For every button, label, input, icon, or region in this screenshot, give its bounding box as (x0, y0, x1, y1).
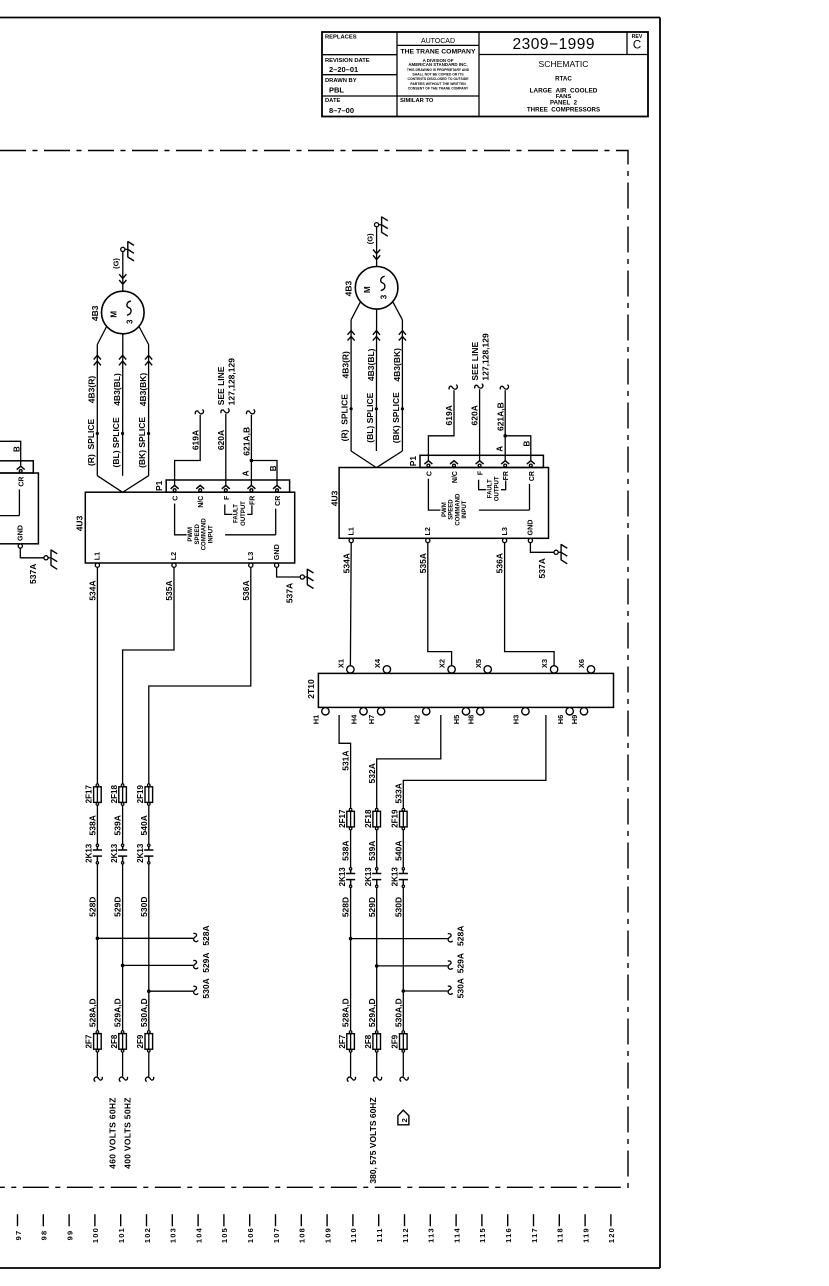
svg-text:535A: 535A (418, 553, 428, 573)
svg-text:4B3(R): 4B3(R) (87, 376, 97, 404)
svg-text:4U3: 4U3 (75, 515, 85, 531)
svg-text:H8: H8 (466, 715, 475, 725)
svg-text:(G): (G) (365, 233, 374, 244)
svg-text:X3: X3 (540, 659, 549, 668)
svg-text:THIS DRAWING IS PROPRIETARY AN: THIS DRAWING IS PROPRIETARY AND (407, 68, 470, 72)
svg-text:2F7: 2F7 (338, 1034, 347, 1048)
svg-text:C: C (633, 40, 641, 52)
svg-text:2F9: 2F9 (136, 1034, 145, 1048)
svg-text:C: C (173, 496, 180, 501)
svg-text:SPEED: SPEED (449, 499, 455, 520)
svg-text:REPLACES: REPLACES (325, 35, 357, 41)
svg-text:528A,D: 528A,D (341, 998, 351, 1027)
svg-text:380, 575 VOLTS 60HZ: 380, 575 VOLTS 60HZ (368, 1097, 378, 1183)
svg-text:(BK) SPLICE: (BK) SPLICE (391, 392, 401, 443)
svg-text:4U3: 4U3 (329, 490, 339, 506)
svg-text:4B3(BL): 4B3(BL) (366, 348, 376, 381)
svg-text:H4: H4 (350, 714, 359, 724)
svg-text:619A: 619A (190, 430, 200, 450)
svg-text:H2: H2 (412, 715, 421, 725)
svg-text:2F9: 2F9 (391, 1034, 400, 1048)
svg-text:103: 103 (169, 1227, 178, 1243)
svg-text:PWM: PWM (188, 527, 194, 542)
svg-text:115: 115 (478, 1227, 487, 1243)
svg-text:538A: 538A (341, 841, 351, 861)
svg-text:98: 98 (40, 1230, 49, 1241)
svg-text:2K13: 2K13 (338, 867, 347, 887)
svg-text:102: 102 (143, 1227, 152, 1243)
svg-text:400 VOLTS 50HZ: 400 VOLTS 50HZ (123, 1097, 133, 1169)
svg-text:AMERICAN STANDARD INC.: AMERICAN STANDARD INC. (408, 62, 467, 67)
svg-text:P1: P1 (408, 456, 418, 467)
svg-text:2F8: 2F8 (110, 1034, 119, 1048)
svg-text:2F18: 2F18 (110, 785, 119, 804)
svg-text:L1: L1 (93, 552, 102, 560)
svg-text:111: 111 (375, 1227, 384, 1242)
svg-text:101: 101 (117, 1227, 126, 1243)
svg-text:538A: 538A (88, 815, 98, 835)
svg-text:127,128,129: 127,128,129 (481, 333, 491, 381)
svg-text:4B3(BK): 4B3(BK) (392, 348, 402, 382)
svg-text:SHALL NOT BE COPIED OR ITS: SHALL NOT BE COPIED OR ITS (412, 73, 464, 77)
svg-text:97: 97 (14, 1230, 23, 1241)
svg-text:107: 107 (272, 1227, 281, 1243)
svg-text:PBL: PBL (329, 86, 344, 95)
svg-text:B: B (269, 465, 278, 471)
svg-text:530D: 530D (393, 897, 403, 917)
svg-text:2–20–01: 2–20–01 (329, 65, 358, 74)
svg-text:3: 3 (379, 294, 388, 299)
svg-text:CR: CR (275, 496, 282, 506)
svg-text:532A: 532A (367, 763, 377, 783)
svg-text:114: 114 (452, 1227, 461, 1243)
svg-text:2F8: 2F8 (364, 1034, 373, 1048)
svg-text:2K13: 2K13 (391, 867, 400, 887)
svg-text:2F7: 2F7 (85, 1034, 94, 1048)
svg-text:529D: 529D (113, 897, 123, 917)
svg-text:2K13: 2K13 (136, 843, 145, 863)
svg-text:108: 108 (298, 1227, 307, 1243)
svg-text:8–7–00: 8–7–00 (329, 106, 354, 115)
svg-text:P1: P1 (154, 480, 164, 491)
svg-text:4B3(BK): 4B3(BK) (138, 373, 148, 407)
svg-text:528D: 528D (88, 897, 98, 917)
svg-text:530A: 530A (456, 978, 466, 998)
svg-text:L2: L2 (423, 527, 432, 535)
svg-text:535A: 535A (164, 580, 174, 600)
svg-text:537A: 537A (28, 564, 38, 584)
svg-text:528A,D: 528A,D (88, 998, 98, 1027)
svg-text:H7: H7 (367, 715, 376, 725)
svg-text:529A,D: 529A,D (113, 998, 123, 1027)
svg-text:F: F (224, 495, 231, 500)
svg-text:539A: 539A (113, 815, 123, 835)
svg-text:C: C (426, 471, 433, 476)
svg-text:M: M (109, 311, 118, 318)
svg-text:537A: 537A (537, 558, 547, 578)
svg-text:SEE LINE: SEE LINE (216, 366, 226, 405)
svg-text:RTAC: RTAC (555, 75, 572, 82)
svg-text:105: 105 (220, 1227, 229, 1243)
svg-text:530A,D: 530A,D (139, 998, 149, 1027)
svg-text:X5: X5 (474, 659, 483, 668)
svg-text:X6: X6 (577, 659, 586, 668)
svg-text:540A: 540A (139, 815, 149, 835)
svg-text:536A: 536A (495, 553, 505, 573)
svg-text:2T10: 2T10 (306, 679, 316, 699)
svg-text:540A: 540A (393, 841, 403, 861)
svg-text:GND: GND (272, 544, 281, 560)
svg-text:(BK) SPLICE: (BK) SPLICE (137, 417, 147, 468)
svg-text:FAULT: FAULT (488, 479, 494, 498)
svg-text:620A: 620A (470, 405, 480, 425)
svg-text:104: 104 (194, 1227, 203, 1243)
svg-text:100: 100 (91, 1227, 100, 1243)
svg-text:2F17: 2F17 (85, 785, 94, 804)
svg-text:L2: L2 (169, 552, 178, 560)
svg-text:SCHEMATIC: SCHEMATIC (539, 59, 589, 69)
svg-text:530D: 530D (139, 897, 149, 917)
svg-text:127,128,129: 127,128,129 (227, 358, 237, 406)
svg-text:2K13: 2K13 (85, 843, 94, 863)
svg-text:N/C: N/C (198, 496, 205, 508)
svg-text:PARTIES WITHOUT THE WRITTEN: PARTIES WITHOUT THE WRITTEN (410, 82, 466, 86)
svg-text:B: B (13, 446, 22, 452)
svg-text:620A: 620A (216, 430, 226, 450)
svg-text:2: 2 (400, 1118, 409, 1122)
svg-text:2309−1999: 2309−1999 (513, 36, 596, 53)
svg-text:L3: L3 (500, 527, 509, 535)
svg-text:OUTPUT: OUTPUT (495, 476, 501, 501)
svg-text:530A: 530A (201, 978, 211, 998)
svg-text:460 VOLTS 60HZ: 460 VOLTS 60HZ (108, 1097, 118, 1169)
svg-text:112: 112 (401, 1227, 410, 1243)
svg-text:(G): (G) (112, 258, 121, 269)
svg-text:SEE LINE: SEE LINE (470, 342, 480, 381)
svg-text:2K13: 2K13 (110, 843, 119, 863)
svg-text:GND: GND (526, 520, 535, 536)
svg-text:536A: 536A (241, 580, 251, 600)
svg-text:534A: 534A (88, 580, 98, 600)
svg-text:L1: L1 (346, 527, 355, 535)
svg-text:FR: FR (503, 471, 510, 480)
svg-text:534A: 534A (341, 553, 351, 573)
svg-text:533A: 533A (393, 783, 403, 803)
svg-text:(R) SPLICE: (R) SPLICE (86, 418, 96, 466)
svg-text:A: A (242, 470, 251, 476)
svg-text:(R) SPLICE: (R) SPLICE (340, 394, 350, 442)
svg-text:621A,B: 621A,B (495, 402, 505, 431)
svg-text:INPUT: INPUT (462, 500, 468, 518)
svg-text:2F19: 2F19 (391, 809, 400, 828)
svg-text:106: 106 (246, 1227, 255, 1243)
svg-text:REVISION DATE: REVISION DATE (325, 58, 370, 64)
svg-text:THE TRANE COMPANY: THE TRANE COMPANY (400, 49, 475, 56)
svg-text:(BL) SPLICE: (BL) SPLICE (365, 392, 375, 442)
svg-text:COMMAND: COMMAND (455, 493, 461, 526)
svg-text:116: 116 (504, 1227, 513, 1243)
svg-text:SIMILAR TO: SIMILAR TO (400, 98, 434, 104)
svg-text:CONSENT OF THE TRANE COMPANY: CONSENT OF THE TRANE COMPANY (408, 86, 469, 90)
svg-text:X1: X1 (337, 659, 346, 668)
svg-text:531A: 531A (341, 750, 351, 770)
svg-text:INPUT: INPUT (208, 525, 214, 543)
svg-text:621A,B: 621A,B (242, 427, 252, 456)
svg-text:F: F (478, 470, 485, 475)
svg-text:H1: H1 (312, 715, 321, 725)
svg-text:118: 118 (556, 1227, 565, 1243)
svg-text:528D: 528D (341, 897, 351, 917)
svg-text:113: 113 (427, 1227, 436, 1243)
svg-text:539A: 539A (367, 841, 377, 861)
svg-text:COMMAND: COMMAND (202, 518, 208, 551)
svg-text:CR: CR (19, 477, 26, 487)
svg-text:THREE COMPRESSORS: THREE COMPRESSORS (527, 106, 600, 113)
svg-text:4B3: 4B3 (344, 281, 354, 297)
svg-text:FR: FR (249, 496, 256, 505)
svg-text:N/C: N/C (452, 471, 459, 483)
svg-text:M: M (363, 286, 372, 293)
svg-text:PWM: PWM (442, 502, 448, 517)
svg-text:H3: H3 (512, 715, 521, 725)
svg-text:2K13: 2K13 (364, 867, 373, 887)
svg-text:CONTENTS DISCLOSED TO OUTSIDE: CONTENTS DISCLOSED TO OUTSIDE (408, 77, 470, 81)
svg-text:AUTOCAD: AUTOCAD (421, 38, 455, 45)
svg-text:529A: 529A (201, 952, 211, 972)
svg-text:529D: 529D (367, 897, 377, 917)
svg-text:120: 120 (607, 1227, 616, 1243)
svg-text:H6: H6 (556, 715, 565, 725)
svg-text:4B3: 4B3 (90, 305, 100, 321)
svg-text:99: 99 (65, 1230, 74, 1241)
svg-text:FAULT: FAULT (234, 504, 240, 523)
svg-text:H9: H9 (570, 715, 579, 725)
svg-text:4B3(R): 4B3(R) (341, 351, 351, 379)
svg-text:528A: 528A (201, 925, 211, 945)
svg-text:4B3(BL): 4B3(BL) (112, 373, 122, 406)
svg-text:DATE: DATE (325, 98, 340, 104)
svg-text:OUTPUT: OUTPUT (241, 501, 247, 526)
svg-text:B: B (523, 440, 532, 446)
svg-text:619A: 619A (444, 405, 454, 425)
svg-text:H5: H5 (452, 715, 461, 725)
svg-text:SPEED: SPEED (195, 523, 201, 544)
svg-text:(BL) SPLICE: (BL) SPLICE (111, 417, 121, 467)
svg-text:3: 3 (126, 319, 135, 324)
svg-text:L3: L3 (246, 552, 255, 560)
svg-text:537A: 537A (285, 583, 295, 603)
svg-text:CR: CR (529, 471, 536, 481)
svg-text:2F17: 2F17 (338, 809, 347, 828)
svg-text:529A: 529A (456, 953, 466, 973)
svg-text:109: 109 (323, 1227, 332, 1243)
svg-text:110: 110 (349, 1227, 358, 1243)
svg-text:530A,D: 530A,D (393, 998, 403, 1027)
svg-text:A: A (496, 446, 505, 452)
svg-text:X4: X4 (373, 658, 382, 668)
svg-text:X2: X2 (438, 659, 447, 668)
svg-text:119: 119 (581, 1227, 590, 1243)
svg-text:528A: 528A (456, 926, 466, 946)
svg-text:GND: GND (16, 525, 25, 541)
svg-text:DRAWN BY: DRAWN BY (325, 78, 357, 84)
svg-text:529A,D: 529A,D (367, 998, 377, 1027)
svg-text:117: 117 (530, 1227, 539, 1243)
svg-text:2F19: 2F19 (136, 785, 145, 804)
svg-text:2F18: 2F18 (364, 809, 373, 828)
